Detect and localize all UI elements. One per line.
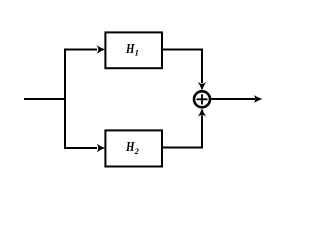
svg-text:1: 1 — [135, 48, 139, 58]
wire H1 output to summer — [163, 50, 202, 84]
summer plus vertical — [201, 94, 203, 104]
block H1 — [105, 32, 162, 68]
arrowhead into summer bottom — [198, 108, 206, 117]
summer plus horizontal — [197, 98, 208, 100]
wire branch to H2 — [65, 98, 97, 148]
arrowhead output — [254, 95, 263, 103]
arrowhead into H2 — [97, 144, 106, 152]
wire output — [211, 98, 255, 100]
wire branch to H1 — [65, 50, 97, 101]
arrowhead into summer top — [198, 82, 206, 91]
arrowhead into H1 — [97, 45, 106, 53]
wire input — [24, 98, 66, 100]
block H2 — [105, 130, 162, 166]
svg-text:2: 2 — [134, 146, 140, 156]
summing junction circle — [194, 91, 210, 107]
wire H2 output to summer — [163, 116, 202, 148]
